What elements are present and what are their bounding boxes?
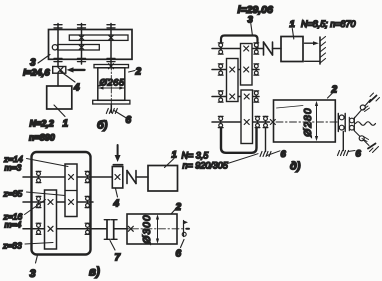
reducer housing bbox=[32, 152, 91, 255]
elastic coupling bbox=[126, 171, 128, 184]
housing bottom U bbox=[221, 128, 257, 153]
thick arrow pointing left bbox=[73, 69, 85, 71]
bearing ticks shaft II top bbox=[78, 25, 86, 28]
shaft end flags support bbox=[183, 221, 185, 229]
leader z=14 bbox=[27, 159, 69, 167]
svg-text:1: 1 bbox=[290, 19, 295, 30]
support wall bbox=[319, 37, 321, 64]
svg-text:6: 6 bbox=[356, 149, 362, 160]
dimension line vertical bbox=[316, 104, 318, 139]
dimension arrows bbox=[99, 87, 124, 89]
svg-text:n=890: n=890 bbox=[29, 133, 55, 143]
brake 7 bbox=[106, 220, 108, 239]
svg-text:б): б) bbox=[97, 120, 108, 132]
upper gear bar bbox=[69, 35, 128, 40]
bearings shaft 1 bbox=[36, 171, 41, 182]
rope hatch marks lower bbox=[364, 137, 369, 140]
coupling 4 bbox=[112, 167, 123, 189]
shaft I vertical bbox=[57, 24, 59, 67]
drum centerline bbox=[118, 228, 189, 230]
svg-text:Ø300: Ø300 bbox=[142, 214, 153, 244]
bearing ticks shaft II bottom bbox=[78, 58, 86, 61]
leader to label 2 bbox=[129, 71, 135, 73]
gear cross upper bar shaft III bbox=[109, 35, 114, 40]
gear column 1 (z14/z85) bbox=[65, 164, 77, 217]
long leader line to hatch bbox=[228, 154, 259, 164]
svg-text:Ø280: Ø280 bbox=[303, 107, 314, 137]
drum 2 bbox=[274, 100, 336, 142]
leader to label 4 bbox=[60, 71, 75, 82]
gear column B bbox=[227, 59, 239, 102]
leader to label 7 bbox=[110, 241, 115, 251]
leader to label 2 bbox=[171, 208, 177, 214]
shaft IV bbox=[212, 121, 270, 123]
lower gear bar bbox=[58, 45, 100, 51]
shaft III vertical bbox=[110, 24, 112, 65]
svg-text:N=2,2: N=2,2 bbox=[30, 119, 54, 129]
wall hatching bbox=[320, 37, 326, 64]
leader to label 1 bbox=[54, 105, 65, 117]
svg-text:1: 1 bbox=[63, 119, 69, 130]
shaft 2 bbox=[23, 201, 93, 203]
svg-text:z=85: z=85 bbox=[3, 189, 23, 199]
svg-text:2: 2 bbox=[331, 85, 338, 96]
svg-text:6: 6 bbox=[126, 115, 132, 126]
right bearing block of drum bbox=[337, 114, 339, 132]
lower rope bbox=[354, 131, 369, 146]
shaft III bbox=[212, 96, 259, 98]
leader to label 4 bbox=[116, 189, 118, 198]
svg-text:2: 2 bbox=[175, 202, 182, 213]
leader z=85 bbox=[27, 192, 66, 196]
coupling 4 bbox=[53, 67, 66, 74]
right support column bbox=[342, 132, 344, 151]
housing top bracket bbox=[221, 36, 258, 49]
drum 2 bottom flange bbox=[93, 100, 130, 104]
svg-text:в): в) bbox=[89, 267, 100, 279]
bearings shaft 3 bbox=[36, 223, 41, 234]
leader to label 6 bbox=[114, 111, 126, 118]
gear cross upper bar shaft II bbox=[79, 35, 84, 40]
svg-text:N= 3,5: N= 3,5 bbox=[182, 151, 210, 161]
svg-text:7: 7 bbox=[115, 253, 121, 264]
drum 2 body bbox=[98, 68, 125, 101]
ground hatch under drum bbox=[106, 109, 117, 114]
svg-text:4: 4 bbox=[113, 199, 120, 210]
motor 1 bbox=[281, 37, 303, 62]
left pedestal support bbox=[265, 128, 267, 152]
svg-text:1: 1 bbox=[172, 150, 177, 161]
svg-text:z=83: z=83 bbox=[2, 241, 22, 251]
leader from 3 bbox=[251, 24, 253, 35]
upper rope bbox=[354, 100, 371, 119]
svg-text:2: 2 bbox=[135, 67, 142, 78]
leader z=83 bbox=[25, 243, 53, 245]
leader to label 1 bbox=[292, 29, 294, 40]
pulley block center sheaves bbox=[350, 118, 355, 123]
svg-text:6: 6 bbox=[176, 249, 182, 260]
motor 1 bbox=[148, 166, 178, 192]
down arrow onto coupling bbox=[117, 145, 119, 156]
leader to label 6 bbox=[181, 240, 185, 248]
coupling of motor (elastic) bbox=[263, 42, 265, 55]
upper anchor bbox=[370, 96, 377, 103]
pulley circle on shaft I bbox=[52, 45, 57, 50]
gear column C bbox=[241, 90, 253, 144]
leader to label 3 bbox=[38, 55, 50, 64]
shaft II bbox=[212, 69, 259, 71]
bearing ticks shaft I top bbox=[54, 25, 62, 28]
leader to label 1 bbox=[165, 159, 175, 168]
coupling cross in drum bbox=[128, 226, 133, 231]
gear column 2 (z16/z83) bbox=[45, 190, 57, 249]
gearbox housing 3 bbox=[49, 30, 133, 60]
shaft II vertical bbox=[81, 24, 83, 65]
shaft 3 bbox=[23, 228, 106, 230]
bearings shaft III bbox=[218, 91, 223, 102]
gear cross at drum flange bbox=[109, 64, 114, 69]
drum centerline bbox=[110, 64, 112, 104]
rope line on drum bbox=[277, 106, 304, 109]
leader to label 2 bbox=[328, 93, 334, 99]
bearing ticks shaft III top bbox=[107, 25, 115, 28]
bearings shaft II bbox=[218, 64, 223, 75]
shaft coupling to motor bbox=[57, 73, 59, 86]
svg-text:i=24,6: i=24,6 bbox=[23, 68, 50, 79]
drum shaft bottom bbox=[110, 104, 112, 113]
bearing ticks shaft III bottom bbox=[107, 58, 115, 61]
svg-text:N=8,5; n=870: N=8,5; n=870 bbox=[301, 19, 356, 29]
gear column A bbox=[241, 44, 253, 86]
gear cross lower bar shaft II bbox=[79, 45, 84, 50]
bearings shaft IV bbox=[218, 116, 223, 127]
svg-text:4: 4 bbox=[73, 83, 80, 94]
svg-text:m=3: m=3 bbox=[5, 163, 22, 173]
svg-text:д): д) bbox=[290, 161, 301, 173]
bearing ticks shaft I bottom bbox=[54, 58, 62, 61]
leader to label 3 bbox=[36, 255, 38, 263]
drum 2 top flange bbox=[94, 65, 129, 68]
svg-text:n= 920/305: n= 920/305 bbox=[183, 161, 229, 171]
drum centerline dash-dot bbox=[276, 121, 339, 123]
coupling cross to drum shaft bbox=[270, 120, 275, 125]
drum 2 bbox=[127, 214, 177, 244]
shaft 1 bbox=[23, 176, 112, 178]
leader z=16 bbox=[25, 200, 46, 215]
svg-text:m=4: m=4 bbox=[5, 220, 22, 230]
wavy rope with hook bbox=[356, 122, 376, 126]
svg-text:i=29,06: i=29,06 bbox=[238, 4, 273, 16]
rope hatch marks upper bbox=[365, 108, 370, 112]
svg-text:6: 6 bbox=[281, 149, 287, 160]
dimension line vertical bbox=[157, 216, 159, 242]
bearings shaft I bbox=[218, 43, 223, 54]
lower anchor bbox=[368, 144, 376, 149]
bearings shaft 2 bbox=[36, 196, 41, 207]
motor 1 bbox=[47, 86, 72, 109]
svg-text:3: 3 bbox=[30, 268, 36, 280]
arrow to wall bbox=[305, 42, 315, 44]
shaft I bbox=[212, 48, 263, 50]
